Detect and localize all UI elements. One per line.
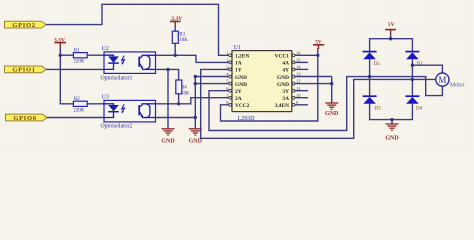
IC U1 L293D (226, 45, 301, 122)
junction R4/U3 collector (177, 102, 180, 105)
wire motor left (412, 78, 436, 80)
wire GPIO2 to U1 pin 1 (46, 4, 229, 55)
svg-text:1Y: 1Y (235, 68, 242, 74)
junction node Y / motor (411, 63, 414, 66)
wire U1 pin 8 VCC2 to 5V bus (221, 48, 318, 121)
wire 3.3V to R3 (174, 25, 176, 31)
svg-text:R2: R2 (74, 97, 80, 102)
svg-text:1,2EN: 1,2EN (235, 54, 249, 60)
diode D1 (363, 52, 381, 67)
resistor R3 (172, 31, 188, 43)
svg-text:220R: 220R (73, 108, 84, 113)
svg-text:GPIO2: GPIO2 (12, 22, 35, 29)
svg-text:GND: GND (235, 75, 247, 81)
svg-text:D3: D3 (374, 106, 381, 112)
junction pin4 (194, 75, 197, 78)
junction 5V/pin16 (316, 54, 319, 57)
wire R3 to collector node (174, 43, 176, 55)
diode D4 (405, 96, 422, 111)
wire motor top (412, 65, 442, 73)
svg-text:4Y: 4Y (282, 68, 289, 74)
power 3.3V left (54, 37, 66, 47)
junction pin5 (194, 82, 197, 85)
wire U3 collector to U1 pin 7 (156, 98, 229, 104)
junction GND4 (390, 118, 393, 121)
wire U1 GND pins 13,12 to GND3 (295, 77, 332, 103)
pin 11 stub (295, 90, 308, 92)
svg-text:D2: D2 (417, 61, 424, 67)
wire 3.3V rail down to R2 (60, 47, 73, 104)
svg-text:D4: D4 (416, 106, 423, 112)
junction node X / 2Y (368, 75, 371, 78)
wire node X vertical D1-D3 (369, 59, 371, 96)
svg-text:VCC2: VCC2 (235, 103, 250, 109)
optoisolator U3 (101, 94, 156, 129)
ground GND4 (385, 124, 399, 141)
svg-text:R1: R1 (74, 49, 80, 54)
svg-text:R4: R4 (181, 86, 187, 91)
motor M1 (436, 73, 465, 89)
wire R4 to U3 collector (178, 94, 180, 104)
wire GPIO0 to U3 (47, 117, 104, 119)
svg-text:U2: U2 (102, 46, 109, 52)
svg-text:U1: U1 (234, 45, 241, 51)
wire U1 pin 3 (1Y) around to bridge (201, 69, 413, 138)
wire R2 to U3 (87, 103, 104, 105)
ground GND2 (189, 129, 203, 145)
junction node Y / 1Y (411, 78, 414, 81)
wire R1 to U2 (87, 54, 104, 56)
resistor R4 (176, 80, 190, 96)
optoisolator U2 (101, 46, 156, 82)
junction U3 emitter/GND2 (194, 116, 197, 119)
wire 5V to D1 D2 (370, 34, 413, 52)
svg-text:GPIO1: GPIO1 (12, 67, 35, 74)
U1 pin rings right (292, 54, 295, 106)
svg-text:5V: 5V (388, 22, 395, 28)
svg-text:16: 16 (296, 50, 301, 55)
svg-text:Optoisolator2: Optoisolator2 (101, 124, 133, 130)
wire GPIO1 to U2 (46, 68, 104, 70)
resistor R2 (73, 97, 87, 113)
junction R3/collector (174, 54, 177, 57)
svg-text:GND: GND (161, 139, 175, 145)
svg-text:Motor: Motor (450, 83, 465, 89)
svg-text:2Y: 2Y (235, 89, 242, 95)
svg-text:4A: 4A (282, 61, 289, 67)
power 5V right (313, 39, 324, 49)
svg-text:L293D: L293D (238, 116, 256, 122)
svg-text:GND: GND (277, 82, 289, 88)
resistor R1 (73, 49, 87, 65)
pin 14 stub (295, 68, 308, 70)
wire 5V to U1 pin 16 (295, 54, 318, 56)
pin 15 stub (295, 61, 308, 63)
svg-text:GND: GND (189, 139, 203, 145)
svg-text:GND: GND (277, 75, 289, 81)
wire D3 D4 bottoms to GND4 (370, 104, 413, 124)
svg-text:M: M (438, 75, 446, 85)
power 5V bridge (385, 22, 396, 34)
junction pin12/GND3 (330, 82, 333, 85)
svg-text:Optoisolator1: Optoisolator1 (101, 76, 133, 82)
svg-text:D1: D1 (374, 61, 381, 67)
port GPIO2 (5, 21, 47, 29)
svg-text:3,4EN: 3,4EN (275, 103, 289, 109)
svg-text:10K: 10K (181, 91, 190, 96)
wire U1 GND pins 4,5 down to GND2 (195, 77, 229, 129)
svg-text:VCC1: VCC1 (275, 54, 290, 60)
svg-text:3A: 3A (282, 96, 289, 102)
pin 10 stub (295, 97, 308, 99)
wire node Y vertical D2-D4 (411, 59, 413, 96)
wire 3.3V to R1 (60, 54, 73, 56)
pin 9 stub (295, 104, 308, 106)
wire U1 pin 6 (2Y) around to bridge (209, 77, 442, 131)
wire U3 emitter to GND2 (156, 117, 196, 119)
diode D3 (363, 96, 381, 111)
svg-text:R3: R3 (179, 33, 185, 38)
port GPIO0 (6, 114, 48, 122)
junction 3.3V/R1 (59, 54, 62, 57)
svg-text:2A: 2A (235, 96, 242, 102)
port GPIO1 (5, 66, 47, 74)
U1 pin rings left (229, 54, 232, 106)
svg-text:GPIO0: GPIO0 (13, 115, 36, 122)
junction 5V bar (389, 37, 392, 40)
ground GND1 (161, 129, 175, 145)
diode D2 (405, 52, 423, 67)
wire U2 emitter to GND and R4 (156, 69, 179, 80)
ground GND3 (325, 103, 339, 117)
svg-text:3Y: 3Y (282, 89, 289, 95)
svg-text:U3: U3 (102, 94, 109, 100)
svg-text:GND: GND (235, 82, 247, 88)
junction emitter/GND1 (166, 68, 169, 71)
svg-text:1A: 1A (235, 61, 242, 67)
svg-text:GND: GND (325, 111, 339, 117)
wire emitter down to GND1 (167, 69, 169, 128)
svg-text:GND: GND (385, 135, 399, 141)
svg-text:10K: 10K (179, 38, 188, 43)
svg-text:220R: 220R (73, 60, 84, 65)
wire U2 collector to U1 pin 2 (156, 55, 229, 62)
power 3.3V middle (170, 16, 182, 26)
